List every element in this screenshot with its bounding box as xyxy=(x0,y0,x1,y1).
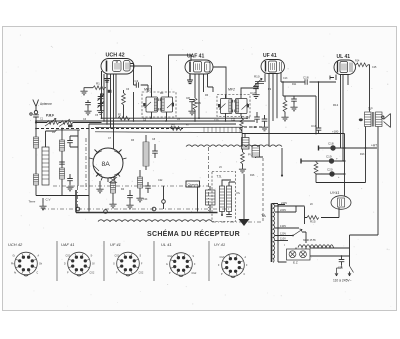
wire TA left column xyxy=(272,204,287,263)
bus line 2 xyxy=(36,120,255,122)
MF2 side trimmer pads xyxy=(218,104,220,107)
divider 4 xyxy=(208,241,210,281)
capacitor C6 xyxy=(59,162,65,164)
label Chassis xyxy=(186,181,200,187)
svg-text:110 à 245V~: 110 à 245V~ xyxy=(333,279,352,283)
wire antenna down xyxy=(35,117,37,129)
gang box dashed right edge xyxy=(208,147,210,211)
switch node xyxy=(292,235,294,237)
svg-text:220V: 220V xyxy=(280,208,286,212)
volume pot with arrow xyxy=(254,78,265,86)
screen resistor stub xyxy=(281,96,288,121)
dial bar hatching xyxy=(204,127,240,132)
svg-text:C19: C19 xyxy=(326,155,332,159)
svg-text:R10: R10 xyxy=(254,75,260,79)
pilot lamp 2 xyxy=(300,251,307,258)
ground terre xyxy=(39,198,46,210)
terminal bar xyxy=(318,146,320,151)
wire between coils xyxy=(35,148,37,174)
svg-text:C21: C21 xyxy=(338,266,343,270)
ground blob under UCH42 xyxy=(104,74,110,82)
svg-text:TA: TA xyxy=(261,213,266,218)
wire +HT line xyxy=(319,147,378,149)
wire right mains down xyxy=(349,235,351,276)
svg-text:UY41: UY41 xyxy=(330,191,340,195)
svg-text:R16: R16 xyxy=(250,174,255,177)
AVC dashed bus xyxy=(36,128,183,130)
wire TS top xyxy=(222,180,235,215)
capacitor C4 on anode wire xyxy=(136,82,138,88)
wire frame top xyxy=(46,131,57,147)
tube UF41 envelope xyxy=(261,60,285,74)
mechanical dash line bottom xyxy=(42,208,230,210)
bottom rail right xyxy=(316,182,366,184)
wire UAF41 top cap loop xyxy=(169,55,227,99)
bus line 1 xyxy=(102,117,248,119)
electrolytic C20 xyxy=(327,168,335,177)
wire UY41 bottom to heater resistor xyxy=(321,208,339,218)
svg-text:R15: R15 xyxy=(310,220,316,224)
coil L2 xyxy=(34,174,39,185)
capacitor C5 xyxy=(67,136,73,147)
svg-text:130V: 130V xyxy=(280,224,286,228)
wire hv left xyxy=(70,130,78,186)
wire T.P right down long xyxy=(377,127,379,236)
capacitor C8 xyxy=(189,100,195,102)
grid stopper component xyxy=(330,76,334,80)
capacitor C16 xyxy=(309,82,336,134)
tube UL41 envelope xyxy=(334,60,356,75)
svg-text:T.S.: T.S. xyxy=(217,175,223,179)
coil L3 xyxy=(60,140,65,151)
wire right vertical to triangle ground xyxy=(243,174,245,219)
transformer TA core bar xyxy=(271,204,273,263)
svg-text:C18: C18 xyxy=(328,142,334,146)
svg-text:CG1: CG1 xyxy=(66,256,71,258)
resistor R5 on dashed bus xyxy=(170,127,182,131)
svg-text:8A: 8A xyxy=(102,161,111,168)
svg-text:UY 41: UY 41 xyxy=(214,242,225,247)
P.U socket box 1 xyxy=(242,138,250,150)
wavy heater line mid xyxy=(186,145,282,147)
wire UCH42 anode to MF1 xyxy=(131,64,149,93)
mains plug arrows xyxy=(335,265,342,276)
capacitor under TS xyxy=(226,215,232,217)
svg-text:UCH 42: UCH 42 xyxy=(8,242,23,247)
coil osc 2 xyxy=(138,177,143,188)
coil L1 xyxy=(34,137,39,148)
ground C17 xyxy=(252,92,259,99)
svg-text:UAF 41: UAF 41 xyxy=(61,242,75,247)
svg-text:R13: R13 xyxy=(360,153,365,156)
big triangle ground xyxy=(239,219,250,226)
socket UCH42 xyxy=(15,252,38,276)
IF transformer MF2 dashed box xyxy=(217,95,250,117)
gang box dashed left edge xyxy=(85,138,87,190)
wire UCH42 anode to MF1 top xyxy=(130,66,152,97)
svg-text:+180: +180 xyxy=(332,130,339,134)
svg-text:R12: R12 xyxy=(333,103,339,107)
tube UAF41 envelope xyxy=(185,60,213,74)
scan speckle noise (decorative) xyxy=(6,31,392,307)
svg-text:MF2: MF2 xyxy=(228,88,235,92)
ground small after resistor xyxy=(239,166,246,173)
wire R6 to bus xyxy=(194,110,196,121)
wire screen line xyxy=(133,92,135,121)
dash continuation to right xyxy=(212,221,262,223)
svg-text:C22: C22 xyxy=(158,179,163,182)
wire osc caps xyxy=(101,94,105,108)
junction dots anode line xyxy=(282,81,319,134)
trimmer cap osc 1 xyxy=(98,95,104,101)
voltage selector switch xyxy=(293,229,302,236)
resistor R3 vertical xyxy=(122,93,126,105)
wire PU to +180 xyxy=(245,134,263,159)
gang mechanical dash line top xyxy=(53,185,208,187)
svg-text:CG2: CG2 xyxy=(139,273,144,275)
coupler node 2 xyxy=(162,200,166,204)
capacitor C2b with ground xyxy=(84,100,91,115)
ground coil osc2 xyxy=(136,195,143,202)
MF1 core lines xyxy=(158,99,160,111)
svg-text:C17: C17 xyxy=(250,91,256,95)
wire UL41 anode to output transformer xyxy=(356,65,370,112)
coupler circle on mech line 1 xyxy=(76,207,80,211)
svg-text:120V: 120V xyxy=(280,232,286,236)
svg-text:SCHÉMA DU RÉCEPTEUR: SCHÉMA DU RÉCEPTEUR xyxy=(147,229,240,238)
input wire xyxy=(36,122,61,124)
junction node antenna xyxy=(35,121,37,123)
dropping resistor loops xyxy=(298,245,334,248)
svg-text:C11: C11 xyxy=(231,119,236,122)
svg-text:C8: C8 xyxy=(186,96,190,100)
svg-text:C12: C12 xyxy=(252,126,257,129)
capacitor right of gang xyxy=(152,144,158,158)
MF1 primary winding xyxy=(145,97,158,112)
svg-text:C20: C20 xyxy=(327,168,333,172)
socket UF41 xyxy=(117,252,140,276)
transformer T.P windings xyxy=(365,112,383,127)
svg-text:C15: C15 xyxy=(372,66,377,69)
screen feed wire L xyxy=(283,82,316,134)
wire to terre xyxy=(36,185,89,196)
socket UL41 xyxy=(170,253,193,277)
wire coil xyxy=(145,135,147,170)
ground gang left xyxy=(96,181,103,193)
svg-text:Terre: Terre xyxy=(29,200,36,204)
P.U socket box 2 xyxy=(252,146,260,158)
svg-text:+: + xyxy=(336,157,338,161)
capacitor C7 + ground xyxy=(66,174,73,191)
svg-text:C16: C16 xyxy=(311,124,317,128)
wire choke xyxy=(209,186,211,213)
svg-text:R6: R6 xyxy=(197,101,201,105)
svg-text:UL 41: UL 41 xyxy=(161,242,172,247)
svg-text:110V: 110V xyxy=(280,237,286,241)
pilot lamp 1 xyxy=(289,251,296,258)
svg-text:C18: C18 xyxy=(303,76,309,80)
wire bar end to heater xyxy=(241,133,243,147)
vertical from TP xyxy=(365,148,367,183)
tube UCH42 envelope xyxy=(101,59,134,75)
electrolytic C19 xyxy=(326,155,338,164)
resistor R6 vertical xyxy=(193,98,197,110)
wire C8 to ground xyxy=(191,102,193,108)
svg-text:CG3: CG3 xyxy=(220,257,225,259)
T.S winding 2 xyxy=(227,186,232,212)
resistor R1 xyxy=(93,86,105,90)
gang rotor arrow xyxy=(94,166,100,172)
wire pot to ground via C17 xyxy=(255,84,257,87)
socket UAF41 xyxy=(68,252,91,276)
frame antenna box xyxy=(42,147,49,185)
svg-text:UAF 41: UAF 41 xyxy=(187,54,204,60)
resistor R2 on bus xyxy=(118,116,130,120)
pilot lamp box xyxy=(287,249,311,260)
svg-text:Gf: Gf xyxy=(92,264,95,266)
ground C8 xyxy=(188,108,195,115)
coil P.M.F with arrow xyxy=(45,118,59,126)
antenna series capacitor xyxy=(33,115,39,117)
transformer T.S dashed box xyxy=(212,172,236,222)
TA tap 130V xyxy=(275,224,299,228)
svg-text:Gt: Gt xyxy=(13,255,16,258)
wire lamp box to mains xyxy=(296,248,350,257)
capacitor C3 (small dark pad) xyxy=(108,90,112,93)
coupler circle on mech line 2 xyxy=(152,207,156,211)
svg-text:240V: 240V xyxy=(281,201,287,205)
resistor drop vertical xyxy=(241,149,245,167)
frame antenna hatching xyxy=(42,151,49,179)
resistor R15 heater xyxy=(307,216,319,220)
MF1 side trimmer pads xyxy=(143,103,145,106)
coil L4 xyxy=(60,168,65,179)
svg-text:P.U: P.U xyxy=(248,153,253,157)
coil ant vertical right of gang xyxy=(143,142,149,166)
TA tap 240V xyxy=(275,201,287,206)
junction mains xyxy=(341,255,343,257)
cap near PU 2 + ground xyxy=(261,115,268,131)
PU drop blob xyxy=(281,174,283,176)
wire UAF41 pin leads xyxy=(195,74,213,118)
antenna symbol xyxy=(33,100,39,111)
wire T.P bottom down xyxy=(365,127,367,149)
divider 1 xyxy=(56,241,58,281)
resistor padder xyxy=(145,182,151,193)
svg-text:Pu: Pu xyxy=(237,191,241,195)
svg-text:Antenne: Antenne xyxy=(40,102,52,106)
svg-text:CG2: CG2 xyxy=(90,273,95,275)
wire UY41 top xyxy=(344,183,346,196)
wire down right xyxy=(163,186,165,209)
junction dots supply xyxy=(344,147,367,175)
ground under UCH42 left xyxy=(80,88,87,95)
bus line 3 xyxy=(89,123,236,125)
speaker horn xyxy=(382,114,391,128)
coupler node 1 xyxy=(104,210,108,214)
svg-text:C4: C4 xyxy=(135,79,139,83)
capacitor C17 xyxy=(253,87,259,89)
svg-text:CG1: CG1 xyxy=(168,256,173,258)
wire from TP right to mains xyxy=(350,234,379,236)
svg-text:C.V: C.V xyxy=(46,198,51,202)
svg-text:E.Z: E.Z xyxy=(293,261,298,265)
svg-text:C2: C2 xyxy=(171,124,175,128)
choke hatch xyxy=(206,193,216,202)
wire C17 down xyxy=(255,89,257,92)
ground coil osc xyxy=(109,193,116,208)
gang sector ticks xyxy=(90,150,127,183)
TA tap 220V xyxy=(275,206,305,212)
wire UF41 pins down xyxy=(265,72,281,147)
divider 3 xyxy=(153,241,155,281)
screen feed UF41 xyxy=(290,96,297,111)
wire C20 row xyxy=(316,173,345,175)
wire chassis drop xyxy=(197,187,199,212)
svg-text:CG2: CG2 xyxy=(192,273,197,275)
AVC dashed bus right segment xyxy=(244,126,262,128)
capacitor C21 mains xyxy=(338,256,344,270)
svg-text:UF 41: UF 41 xyxy=(263,53,277,59)
svg-text:R11: R11 xyxy=(292,83,297,86)
svg-text:P.M.F: P.M.F xyxy=(46,114,54,118)
svg-text:MF1: MF1 xyxy=(144,88,151,92)
capacitor near PU xyxy=(254,112,260,123)
wire to tube xyxy=(73,122,102,124)
resistor R9 vertical xyxy=(240,116,244,132)
antenna connector circle xyxy=(34,111,37,114)
svg-text:C10: C10 xyxy=(214,119,219,122)
svg-text:C14: C14 xyxy=(143,198,148,201)
svg-text:MF: MF xyxy=(160,92,164,95)
wire R15 to lamps xyxy=(305,207,308,225)
MF2 primary winding xyxy=(219,99,232,114)
socket UY41 xyxy=(222,254,245,278)
divider 2 xyxy=(103,241,105,281)
svg-text:UCH 42: UCH 42 xyxy=(106,53,125,59)
junction node TS xyxy=(221,214,223,216)
dark blob cap xyxy=(68,125,73,128)
gang stator arcs xyxy=(97,151,120,175)
svg-text:UF 41: UF 41 xyxy=(110,242,121,247)
TA tap 110V xyxy=(275,237,288,241)
margin terminal circle xyxy=(30,113,32,115)
wire PU drop xyxy=(281,148,283,175)
gang mechanical dash vertical left xyxy=(77,186,79,209)
wire coil osc 2 xyxy=(139,170,141,195)
svg-text:T.P: T.P xyxy=(368,107,373,111)
svg-text:C13: C13 xyxy=(283,77,288,80)
svg-text:At: At xyxy=(14,272,17,275)
wire gang left xyxy=(88,124,90,212)
resistor R14 anode right xyxy=(356,63,368,67)
svg-text:R14: R14 xyxy=(355,60,360,63)
transformer TA winding loops xyxy=(273,204,275,262)
right bus vertical xyxy=(344,134,346,183)
ground blob under UAF41 xyxy=(187,74,193,84)
trimmer bowtie xyxy=(110,178,117,183)
wire UL41 left pin down xyxy=(335,75,337,81)
bus junction nodes xyxy=(35,117,248,129)
capacitor pad xyxy=(126,190,133,209)
TA tap 120V xyxy=(275,232,293,236)
svg-text:R1: R1 xyxy=(96,82,100,86)
wire left column xyxy=(35,129,37,138)
resistor R13 vertical xyxy=(314,161,318,183)
IF transformer MF1 dashed box xyxy=(142,92,176,117)
MF2 secondary winding xyxy=(236,99,249,114)
coil L with arrow 2 xyxy=(59,119,73,127)
wire mid row xyxy=(301,160,345,162)
chassis rail vertical left xyxy=(75,190,77,213)
MF1 secondary winding xyxy=(161,97,174,112)
wires coils L3 L4 xyxy=(61,129,63,196)
tube UY41 envelope xyxy=(331,196,351,210)
terminal bar 2 xyxy=(300,159,302,164)
dial pointer bar xyxy=(95,127,242,132)
wavy flexible line bottom xyxy=(98,220,212,222)
wire +180 line xyxy=(243,133,345,135)
svg-text:30 40 45 55: 30 40 45 55 xyxy=(303,239,316,242)
svg-text:Chassis: Chassis xyxy=(188,183,199,187)
wires MF2 xyxy=(226,82,259,121)
wire top tap xyxy=(278,205,305,207)
coil osc vertical xyxy=(111,182,116,193)
wire grid return with resistor R1 xyxy=(84,87,106,90)
svg-text:+HT: +HT xyxy=(371,144,377,148)
T.S winding 1 xyxy=(220,186,225,212)
wires MF1 to buses xyxy=(152,85,167,121)
capacitor C18 coupling xyxy=(305,79,307,85)
terminal blob left of T.P xyxy=(359,118,363,121)
tuning gang circle 8A xyxy=(93,148,123,178)
MF2 core lines xyxy=(233,100,235,112)
svg-text:CG3: CG3 xyxy=(115,256,120,258)
svg-text:G: G xyxy=(166,264,168,266)
ground osc caps xyxy=(97,108,104,115)
svg-text:UL 41: UL 41 xyxy=(337,54,351,60)
mains switch xyxy=(350,266,354,273)
wire anode line UF41 to UL41 xyxy=(281,81,305,83)
wire UCH42 pin leads down xyxy=(102,71,117,150)
PU dashed vertical xyxy=(262,158,264,222)
choke rect xyxy=(206,190,216,205)
wire UCH42 left pin to ground xyxy=(101,71,103,86)
electrolytic C18 xyxy=(328,142,336,151)
wire switch to resistor chain xyxy=(302,232,306,243)
trimmer cap osc 2 xyxy=(98,102,104,108)
svg-text:G: G xyxy=(113,264,115,266)
wire mains upper xyxy=(310,247,350,249)
cadre outline xyxy=(56,130,80,131)
wire R3 xyxy=(123,90,125,118)
chassis bold rail xyxy=(76,212,218,214)
wire UL41 cathode down xyxy=(341,75,349,162)
